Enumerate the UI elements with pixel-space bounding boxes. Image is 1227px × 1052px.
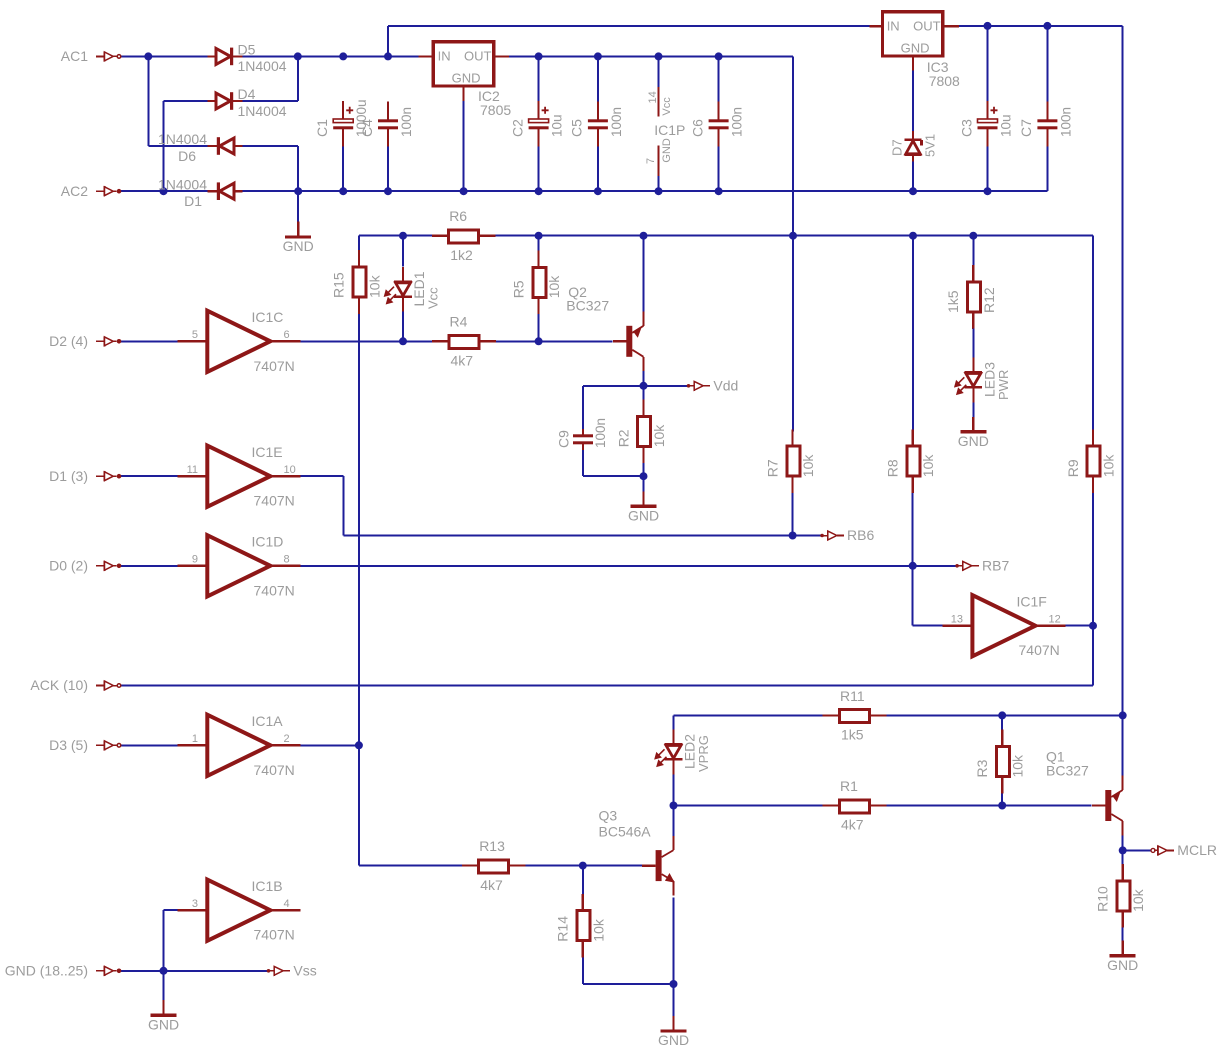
- svg-text:4: 4: [284, 898, 290, 910]
- svg-text:10u: 10u: [550, 114, 565, 137]
- wire junction: [160, 967, 168, 975]
- wire IC1B input riser: [163, 910, 165, 971]
- wire C3 top: [987, 26, 989, 102]
- svg-text:IC1C: IC1C: [252, 309, 284, 325]
- wire junction: [655, 187, 663, 195]
- svg-text:12: 12: [1049, 614, 1061, 626]
- wire R15 long column: [358, 313, 360, 745]
- wire R2 bottom stub: [643, 461, 645, 476]
- wire node up to top rail: [387, 26, 389, 57]
- svg-text:11: 11: [187, 464, 198, 476]
- svg-text:10k: 10k: [366, 274, 382, 298]
- svg-text:1N4004: 1N4004: [238, 103, 287, 119]
- svg-text:GND: GND: [628, 508, 659, 524]
- wire R3 bottom: [1001, 793, 1003, 806]
- wire D4 node up: [297, 56, 299, 101]
- wire 8V rail to Q1 emitter: [1122, 715, 1124, 776]
- wire Vdd node to pin: [644, 385, 687, 387]
- svg-text:8: 8: [284, 554, 290, 566]
- wire junction: [670, 802, 678, 810]
- pin AC2: [96, 186, 121, 196]
- wire junction: [984, 187, 992, 195]
- resistor R13: [479, 860, 509, 873]
- resistor R5: [533, 267, 546, 297]
- svg-text:R12: R12: [981, 287, 997, 313]
- wire D3 input: [121, 744, 178, 746]
- wire R1 to Q1 base: [885, 805, 1092, 807]
- svg-text:D7: D7: [890, 139, 905, 156]
- svg-text:10k: 10k: [1010, 754, 1026, 778]
- buffer IC1F 7407: [942, 595, 1065, 656]
- svg-text:ACK (10): ACK (10): [30, 677, 88, 693]
- svg-text:R7: R7: [764, 459, 780, 477]
- svg-text:10k: 10k: [651, 424, 667, 448]
- pin stub IN of IC3: [870, 25, 883, 27]
- power pins IC1P: [657, 87, 659, 176]
- wire junction: [1119, 846, 1127, 854]
- svg-text:GND (18..25): GND (18..25): [5, 963, 88, 979]
- pin Vss: [267, 966, 291, 976]
- svg-text:100n: 100n: [730, 107, 745, 137]
- ground below R10: [1110, 941, 1136, 956]
- svg-text:IC1P: IC1P: [654, 122, 685, 138]
- svg-text:RB6: RB6: [847, 527, 874, 543]
- wire 5V rail from IC2 OUT: [509, 55, 793, 57]
- pin Vdd: [687, 381, 711, 391]
- svg-text:IC1F: IC1F: [1017, 593, 1047, 609]
- wire junction: [160, 187, 168, 195]
- svg-text:MCLR: MCLR: [1177, 842, 1217, 858]
- svg-text:R5: R5: [510, 280, 526, 298]
- wire junction: [998, 711, 1006, 719]
- svg-text:4k7: 4k7: [451, 353, 474, 369]
- wire R7 top: [792, 252, 794, 432]
- svg-text:R4: R4: [450, 314, 468, 330]
- svg-text:1N4004: 1N4004: [238, 58, 287, 74]
- wire D4 cathode east: [241, 100, 298, 102]
- wire Q3 emitter down: [673, 897, 675, 984]
- resistor R8: [907, 446, 920, 476]
- wire D2 input: [121, 340, 178, 342]
- wire R14 top stub: [582, 866, 584, 896]
- svg-text:C5: C5: [569, 119, 585, 137]
- wire RB7 down to IC1F input: [912, 566, 914, 626]
- transistor Q3 BC546A: [642, 836, 675, 896]
- wire R15 top stub: [358, 236, 360, 252]
- svg-text:10u: 10u: [999, 114, 1014, 137]
- wire IC2 GND pin: [463, 101, 465, 191]
- pin stub OUT of IC2: [494, 55, 509, 57]
- ground below Q3: [661, 1016, 687, 1031]
- wire R13 to R14 node: [524, 865, 582, 867]
- svg-text:C2: C2: [509, 119, 525, 137]
- wire 8V rail down right side: [1122, 26, 1124, 716]
- ground below Vss: [151, 1000, 177, 1015]
- wire R9 top: [1092, 236, 1094, 432]
- wire junction: [294, 187, 302, 195]
- svg-text:1k5: 1k5: [841, 727, 864, 743]
- wire R12 to LED3: [972, 329, 974, 358]
- wire IC1E output down: [343, 476, 345, 535]
- wire junction: [909, 187, 917, 195]
- svg-text:7407N: 7407N: [254, 358, 295, 374]
- svg-text:D3 (5): D3 (5): [49, 737, 88, 753]
- svg-text:2: 2: [284, 733, 290, 745]
- wire R3 top stub: [1001, 715, 1003, 730]
- svg-text:GND: GND: [452, 70, 481, 85]
- wire node to Q3 base: [583, 865, 644, 867]
- wire IC1E output: [300, 475, 344, 477]
- wire junction: [670, 980, 678, 988]
- resistor R14: [577, 911, 590, 941]
- wire R5 bottom: [538, 313, 540, 341]
- svg-text:10k: 10k: [1101, 454, 1117, 478]
- wire R10 bottom: [1122, 927, 1124, 941]
- buffer IC1A 7407: [177, 715, 300, 776]
- wire junction: [715, 52, 723, 60]
- capacitor C5: [588, 102, 608, 147]
- svg-text:C4: C4: [359, 119, 375, 137]
- wire R8 top: [912, 236, 914, 432]
- svg-text:C1: C1: [314, 119, 330, 137]
- wire AC2 to D4 anode: [164, 100, 208, 102]
- wire top rail to IC3 IN: [388, 25, 870, 27]
- wire MCLR to pin: [1123, 849, 1151, 851]
- svg-text:R10: R10: [1095, 886, 1111, 912]
- wire C7 bottom: [1046, 147, 1048, 192]
- svg-text:R13: R13: [479, 838, 505, 854]
- svg-text:D1 (3): D1 (3): [49, 468, 88, 484]
- wire D5 cathode to node: [241, 55, 419, 57]
- svg-text:IC1A: IC1A: [252, 713, 284, 729]
- svg-text:IC1E: IC1E: [252, 444, 283, 460]
- capacitor C9: [573, 429, 593, 450]
- zener diode D7: [905, 131, 922, 161]
- wire to IC1F pin 13: [913, 625, 943, 627]
- svg-text:1: 1: [192, 733, 198, 745]
- capacitor C2: [529, 101, 549, 147]
- wire RB7 line: [300, 565, 913, 567]
- capacitor C1: [333, 101, 353, 147]
- wire R2 top stub: [643, 386, 645, 402]
- svg-text:R14: R14: [555, 916, 571, 942]
- wire IC1F output: [1065, 625, 1093, 627]
- svg-text:GND: GND: [1107, 957, 1138, 973]
- resistor R4: [449, 336, 479, 349]
- resistor R3: [996, 747, 1009, 777]
- ground near bridge: [285, 222, 311, 238]
- resistor R9: [1087, 446, 1100, 476]
- svg-text:1k2: 1k2: [450, 247, 473, 263]
- wire C4 bottom: [387, 147, 389, 192]
- svg-text:7: 7: [645, 158, 657, 164]
- wire LED3 cathode to GND: [972, 402, 974, 417]
- svg-text:100n: 100n: [593, 418, 608, 448]
- wire junction: [535, 232, 543, 240]
- wire to IC1B input: [164, 909, 178, 911]
- svg-text:100n: 100n: [609, 107, 624, 137]
- svg-text:C3: C3: [958, 119, 974, 137]
- wire Vdd node west to C9: [583, 385, 644, 387]
- wire Vcc bus right of R6: [494, 235, 1093, 237]
- svg-text:5: 5: [192, 329, 198, 341]
- transistor Q1 BC327: [1092, 776, 1123, 836]
- wire Q1 collector down: [1122, 835, 1124, 850]
- wire Vss line: [121, 970, 267, 972]
- svg-text:C9: C9: [556, 430, 572, 448]
- svg-text:GND: GND: [148, 1017, 179, 1033]
- wire junction: [384, 52, 392, 60]
- resistor R12: [968, 282, 981, 312]
- wire junction: [384, 187, 392, 195]
- svg-text:C6: C6: [689, 119, 705, 137]
- svg-text:3: 3: [192, 898, 198, 910]
- wire R12 top stub: [972, 236, 974, 267]
- svg-text:6: 6: [284, 329, 290, 341]
- wire D0 input: [121, 565, 178, 567]
- wire C9 bottom: [582, 450, 584, 476]
- wire GND stub below Q3: [673, 984, 675, 1016]
- svg-text:Vdd: Vdd: [713, 378, 738, 394]
- wire AC1 net from pin to D5: [121, 55, 208, 57]
- wire R9 bottom: [1092, 491, 1094, 625]
- LED LED1: [385, 267, 412, 312]
- wire R5 top stub: [538, 236, 540, 252]
- wire junction: [579, 862, 587, 870]
- wire junction: [789, 532, 797, 540]
- svg-text:7407N: 7407N: [1019, 642, 1060, 658]
- pin GND (18..25): [96, 966, 121, 976]
- svg-text:Vcc: Vcc: [661, 97, 673, 116]
- wire RB6 line: [344, 535, 793, 537]
- resistor R2: [638, 416, 651, 446]
- svg-text:R6: R6: [449, 208, 467, 224]
- transistor Q2 BC327: [613, 312, 644, 372]
- wire junction: [594, 52, 602, 60]
- wire junction: [715, 187, 723, 195]
- wire junction: [294, 52, 302, 60]
- wire C6 bottom: [718, 147, 720, 192]
- wire IC3 GND to D7: [912, 71, 914, 132]
- wire junction: [399, 232, 407, 240]
- resistor R10: [1117, 881, 1130, 911]
- regulator IC3 7808 box: [883, 12, 943, 56]
- wire D6 cathode east: [241, 145, 299, 147]
- wire junction: [998, 802, 1006, 810]
- svg-text:R9: R9: [1065, 459, 1081, 477]
- wire junction: [1119, 711, 1127, 719]
- svg-text:PWR: PWR: [996, 370, 1011, 400]
- pin D1 (3): [96, 471, 121, 481]
- resistor R7: [787, 446, 800, 476]
- wire VPRG node to R1: [674, 805, 824, 807]
- wire LED1 top: [402, 236, 404, 267]
- wire LED1 bottom: [402, 312, 404, 342]
- svg-text:R15: R15: [331, 272, 347, 298]
- ground below LED3: [960, 417, 986, 432]
- svg-text:D4: D4: [238, 86, 256, 102]
- wire IC1A output: [300, 744, 359, 746]
- wire junction: [640, 472, 648, 480]
- wire junction: [640, 382, 648, 390]
- wire junction: [1089, 622, 1097, 630]
- wire AC1 to D6 anode: [148, 145, 207, 147]
- capacitor C4: [378, 102, 398, 147]
- wire C3 bottom: [987, 147, 989, 192]
- wire GND bus: [241, 190, 1048, 192]
- pin RB7: [955, 561, 979, 571]
- wire junction: [655, 52, 663, 60]
- svg-text:4k7: 4k7: [480, 877, 503, 893]
- svg-text:RB7: RB7: [982, 558, 1009, 574]
- wire LED2 bottom: [673, 774, 675, 805]
- LED LED3: [955, 358, 982, 403]
- wire junction: [399, 337, 407, 345]
- svg-text:9: 9: [192, 554, 198, 566]
- pin RB6: [820, 531, 844, 541]
- svg-text:IC1B: IC1B: [252, 878, 283, 894]
- resistor R6: [449, 230, 479, 243]
- pin D0 (2): [96, 561, 121, 571]
- svg-text:7407N: 7407N: [254, 582, 295, 598]
- wire column down to R13: [358, 745, 360, 865]
- svg-text:7808: 7808: [929, 73, 960, 89]
- wire Vcc bus left: [359, 235, 434, 237]
- svg-text:Q3: Q3: [599, 808, 618, 824]
- wire 5V rail down to Vcc bus: [792, 56, 794, 251]
- wire junction: [969, 232, 977, 240]
- wire ACK line: [121, 685, 1093, 687]
- svg-text:AC1: AC1: [61, 48, 88, 64]
- wire R10 top stub: [1122, 850, 1124, 865]
- wire LED2 top stub: [673, 715, 675, 730]
- wire Q2 collector down: [643, 371, 645, 386]
- wire LED2 node to R11: [674, 714, 824, 716]
- resistor R11: [840, 710, 870, 723]
- wire junction: [909, 232, 917, 240]
- wire RB6 to pin: [793, 535, 821, 537]
- wire D6 down to GND bus: [297, 146, 299, 191]
- wire C2 bottom: [538, 147, 540, 192]
- svg-text:10k: 10k: [546, 275, 562, 299]
- wire junction: [535, 337, 543, 345]
- pin MCLR: [1151, 845, 1174, 855]
- regulator IC2 7805 box: [433, 42, 493, 86]
- wire R4 to R5 node: [494, 340, 613, 342]
- svg-text:R3: R3: [974, 759, 990, 777]
- pin stubs of vertical resistors: [359, 250, 1123, 957]
- svg-text:D2 (4): D2 (4): [49, 333, 88, 349]
- wire Q2 emitter from Vcc: [643, 236, 645, 312]
- wire D1 input: [121, 475, 178, 477]
- wire R7 bottom: [792, 491, 794, 535]
- pin stub OUT of IC3: [943, 25, 959, 27]
- diode D5: [208, 48, 243, 66]
- svg-text:13: 13: [951, 614, 963, 626]
- svg-text:7407N: 7407N: [254, 493, 295, 509]
- capacitor C7: [1037, 102, 1057, 147]
- wire C9 top drop: [582, 386, 584, 429]
- wire R11 to R3 node: [885, 714, 1123, 716]
- buffer IC1B 7407: [177, 880, 300, 941]
- wire GND stub below Vss: [163, 971, 165, 1000]
- wire junction: [535, 52, 543, 60]
- wire junction: [984, 22, 992, 30]
- svg-text:GND: GND: [283, 238, 314, 254]
- svg-text:IC1D: IC1D: [252, 534, 284, 550]
- pin stubs of horizontal resistors: [432, 236, 886, 866]
- wire junction: [594, 187, 602, 195]
- pin stub IN of IC2: [419, 55, 434, 57]
- svg-text:14: 14: [647, 91, 659, 103]
- svg-text:10k: 10k: [920, 454, 936, 478]
- svg-text:GND: GND: [901, 40, 930, 55]
- pin D3 (5): [96, 740, 121, 750]
- svg-text:R1: R1: [840, 778, 858, 794]
- svg-text:4k7: 4k7: [841, 817, 864, 833]
- svg-text:1k5: 1k5: [945, 290, 961, 313]
- wire R8 bottom: [912, 491, 914, 565]
- wire junction: [339, 52, 347, 60]
- wire junction: [1043, 22, 1051, 30]
- pin stub GND of IC2: [463, 86, 465, 101]
- buffer IC1E 7407: [177, 446, 300, 507]
- resistor R15: [353, 267, 366, 297]
- wire junction: [640, 232, 648, 240]
- svg-text:7805: 7805: [480, 102, 511, 118]
- pin stub GND of IC3: [912, 56, 914, 71]
- svg-text:D6: D6: [178, 148, 196, 164]
- wire junction: [460, 187, 468, 195]
- svg-text:Vcc: Vcc: [426, 287, 441, 309]
- svg-text:VPRG: VPRG: [696, 735, 711, 772]
- diode D6: [208, 137, 243, 155]
- svg-text:R8: R8: [885, 459, 901, 477]
- wire C7 top: [1046, 26, 1048, 102]
- svg-text:AC2: AC2: [61, 183, 88, 199]
- svg-text:D0 (2): D0 (2): [49, 558, 88, 574]
- diode D1: [208, 182, 243, 200]
- pin D2 (4): [96, 336, 121, 346]
- svg-text:Vss: Vss: [293, 963, 316, 979]
- wire D7 anode to bus: [912, 162, 914, 192]
- wire AC1 branch down to D6: [147, 56, 149, 146]
- wire C2 top: [538, 56, 540, 101]
- svg-text:GND: GND: [661, 138, 673, 163]
- svg-text:OUT: OUT: [464, 49, 492, 64]
- svg-text:R2: R2: [615, 429, 631, 447]
- wire junction: [535, 187, 543, 195]
- pin ACK (10): [96, 681, 121, 691]
- wire GND symbol stub: [297, 191, 299, 221]
- wire ACK riser: [1092, 626, 1094, 686]
- svg-text:D1: D1: [184, 193, 202, 209]
- svg-text:7407N: 7407N: [254, 762, 295, 778]
- svg-text:BC327: BC327: [566, 297, 609, 313]
- diode D4: [208, 92, 243, 110]
- resistor R1: [840, 800, 870, 813]
- wire junction: [339, 187, 347, 195]
- wire GND stub below R2: [643, 476, 645, 491]
- wire IC1P GND to bus: [658, 176, 660, 191]
- wire IC1C output: [300, 340, 435, 342]
- wire to R13: [359, 865, 463, 867]
- wire junction: [789, 232, 797, 240]
- svg-text:10: 10: [284, 464, 296, 476]
- capacitor C3: [978, 101, 998, 147]
- capacitor C6: [709, 102, 729, 147]
- svg-text:1N4004: 1N4004: [158, 131, 207, 147]
